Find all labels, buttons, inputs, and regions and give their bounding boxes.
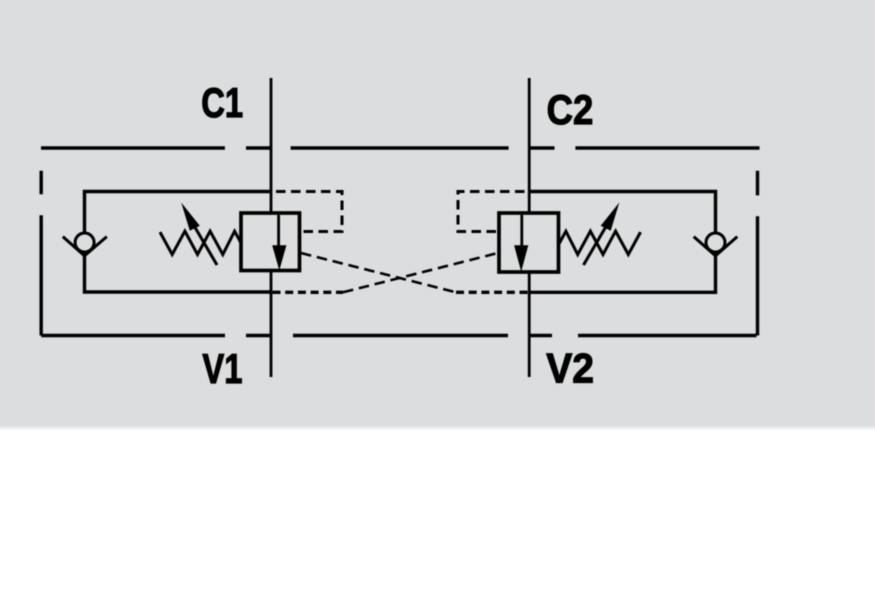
svg-text:V2: V2	[546, 344, 594, 392]
svg-text:V1: V1	[202, 345, 242, 392]
svg-text:C1: C1	[201, 79, 243, 126]
svg-text:C2: C2	[547, 87, 594, 134]
